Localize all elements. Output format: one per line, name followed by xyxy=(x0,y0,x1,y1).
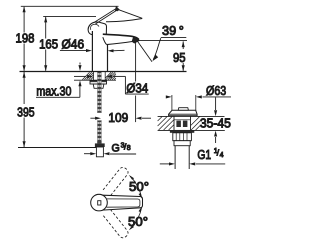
dimension 198 line xyxy=(23,7,25,33)
lever base / cartridge cover xyxy=(88,22,106,35)
lever grip top edge xyxy=(119,10,143,19)
swing arc lower xyxy=(130,208,141,229)
svg-text:Ø63: Ø63 xyxy=(206,84,226,98)
supply hose braided column xyxy=(97,72,101,113)
svg-text:max.30: max.30 xyxy=(36,84,71,98)
pivot dot xyxy=(98,201,101,205)
faucet body left edge xyxy=(91,31,93,71)
swing arc upper xyxy=(130,176,141,197)
svg-text:50°: 50° xyxy=(129,180,149,194)
svg-text:G1: G1 xyxy=(197,148,211,162)
G1 1/4 label xyxy=(160,163,169,165)
svg-text:4: 4 xyxy=(220,152,224,159)
handle grip xyxy=(103,195,143,210)
valve ring xyxy=(174,141,190,146)
svg-text:198: 198 xyxy=(16,32,35,46)
valve nut flange xyxy=(170,130,194,132)
Ø63 extension lines from cap corners xyxy=(171,95,173,111)
handle pivot circle xyxy=(91,194,108,211)
svg-text:35-45: 35-45 xyxy=(200,116,231,130)
counter hatch bottom line (drain) xyxy=(158,129,225,131)
hatch right band xyxy=(191,117,201,131)
valve body in counter xyxy=(174,116,191,130)
svg-text:G: G xyxy=(112,143,120,155)
lever grip bottom edge xyxy=(106,19,142,22)
extension line hose end (395 level) xyxy=(18,147,96,149)
spout top edge xyxy=(103,34,139,39)
counter hatch top line (drain) xyxy=(158,115,225,117)
valve push button xyxy=(178,108,188,111)
spout neck junction xyxy=(103,37,107,44)
svg-text:95: 95 xyxy=(173,51,186,65)
39deg angle leg xyxy=(137,41,152,62)
svg-text:8: 8 xyxy=(127,145,131,152)
G3/8 label arrows xyxy=(84,153,91,155)
svg-text:165: 165 xyxy=(39,38,58,52)
extension line handle top (198 level) xyxy=(21,5,119,7)
svg-text:39 °: 39 ° xyxy=(162,24,184,38)
mounting hole edges xyxy=(93,72,95,80)
dashed swing position upper xyxy=(103,166,130,196)
tailpipe G1 1/4 xyxy=(174,146,176,169)
faucet body right edge xyxy=(107,45,109,72)
svg-text:395: 395 xyxy=(17,106,35,120)
hatch left band xyxy=(158,117,174,130)
dim 35-45 xyxy=(215,97,217,110)
lever tip xyxy=(115,6,120,11)
hose ferrule xyxy=(95,143,105,147)
dimension 95 line xyxy=(182,41,184,49)
dimension 109 xyxy=(90,117,95,119)
95 extension line from spout tip xyxy=(138,40,188,42)
deck slab bottom line xyxy=(74,79,116,81)
svg-text:Ø34: Ø34 xyxy=(126,81,148,95)
G3/8 nipple xyxy=(96,147,103,157)
Ø34 leader arrows xyxy=(74,75,86,77)
valve serrated nut xyxy=(173,133,192,141)
dimension 165 line xyxy=(45,17,47,39)
lever blade rising edge xyxy=(93,8,116,23)
deck hatch left xyxy=(82,72,93,80)
deck hatch right xyxy=(106,72,116,80)
extension line body top (165 level) xyxy=(43,15,96,17)
extension line from spout tip down (109) xyxy=(135,42,137,82)
svg-text:50°: 50° xyxy=(128,215,148,229)
washer under deck xyxy=(90,81,107,84)
valve cap xyxy=(169,110,198,115)
spout tip face (aerator, dark) xyxy=(132,37,140,44)
spout bottom edge xyxy=(107,42,133,45)
dimension 395 line xyxy=(23,72,25,104)
svg-text:109: 109 xyxy=(108,111,128,125)
svg-text:Ø46: Ø46 xyxy=(62,38,85,52)
39 underline xyxy=(161,37,187,39)
deck line xyxy=(20,71,187,73)
handle inner outline xyxy=(107,199,140,207)
mounting nut xyxy=(93,84,104,88)
39deg leader arc with arrow xyxy=(153,38,161,59)
dashed swing position lower xyxy=(103,209,130,239)
